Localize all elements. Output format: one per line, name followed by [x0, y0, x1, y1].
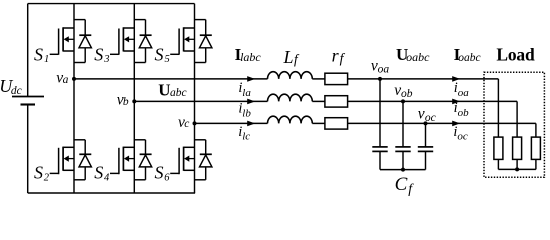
diode D4 antiparallel with S4: [134, 139, 145, 141]
svg-text:oc: oc: [425, 112, 436, 124]
resistor rf phase a: [325, 73, 348, 84]
wire capacitor bottom bus: [380, 169, 426, 171]
svg-text:4: 4: [104, 172, 110, 183]
wire phase a to inductor: [74, 78, 268, 80]
diode D5 antiparallel with S5: [195, 19, 206, 21]
battery Udc positive plate: [12, 96, 44, 98]
svg-text:la: la: [242, 87, 251, 99]
node va junction: [72, 77, 76, 81]
wire left rail lower: [27, 105, 29, 194]
arrow ila: [247, 76, 255, 82]
svg-text:c: c: [184, 118, 189, 130]
wire inductor to resistor a: [312, 78, 325, 80]
svg-text:C: C: [395, 174, 408, 195]
node voa junction: [378, 77, 382, 81]
diode D1 antiparallel with S1: [74, 19, 85, 21]
svg-text:U: U: [158, 81, 170, 100]
node load bus junction: [515, 167, 519, 171]
wire inductor to resistor c: [312, 122, 325, 124]
svg-text:oabc: oabc: [406, 50, 430, 64]
svg-text:lb: lb: [242, 108, 251, 120]
inductor Lf phase a: [268, 72, 313, 79]
svg-text:oc: oc: [457, 130, 468, 142]
svg-text:lc: lc: [242, 130, 250, 142]
svg-text:r: r: [332, 45, 340, 65]
node vob junction: [401, 99, 405, 103]
wire resistor to load c: [348, 122, 536, 124]
svg-text:Load: Load: [496, 45, 535, 65]
wire load bottom bus: [498, 168, 536, 170]
resistor rf phase c: [325, 118, 348, 129]
capacitor Cf phase c: [425, 123, 427, 146]
svg-text:3: 3: [103, 54, 109, 65]
svg-text:6: 6: [164, 172, 170, 183]
svg-text:S: S: [155, 162, 164, 182]
transistor S1: [73, 4, 75, 79]
wire phase b to inductor: [134, 100, 267, 102]
svg-text:dc: dc: [11, 85, 22, 97]
svg-text:b: b: [123, 96, 129, 108]
node voc junction: [424, 121, 428, 125]
load dashed box: [484, 72, 544, 177]
svg-text:oabc: oabc: [458, 52, 480, 64]
arrow ilc: [247, 121, 255, 127]
transistor S5: [194, 4, 196, 124]
svg-text:ob: ob: [401, 88, 413, 100]
wire phase c to inductor: [195, 122, 268, 124]
diode D2 antiparallel with S2: [74, 139, 85, 141]
svg-text:labc: labc: [240, 50, 261, 64]
transistor S2: [73, 79, 75, 193]
diode D3 antiparallel with S3: [134, 19, 145, 21]
inductor Lf phase c: [268, 116, 313, 123]
svg-text:oa: oa: [458, 87, 470, 99]
load resistor phase c: [535, 123, 537, 137]
svg-text:S: S: [94, 162, 103, 182]
wire inductor to resistor b: [312, 100, 325, 102]
svg-text:5: 5: [165, 54, 170, 65]
arrow iob: [452, 99, 460, 105]
node capacitor bus junction: [401, 168, 405, 172]
transistor S6: [194, 123, 196, 193]
svg-text:oa: oa: [378, 64, 390, 76]
arrow ilb: [247, 99, 255, 105]
svg-text:S: S: [34, 162, 43, 182]
transistor S3: [133, 4, 135, 102]
svg-text:S: S: [94, 45, 103, 65]
resistor rf phase b: [325, 96, 348, 107]
svg-text:S: S: [155, 45, 164, 65]
node vb junction: [132, 99, 136, 103]
load resistor phase b: [516, 101, 518, 137]
capacitor Cf phase b: [402, 101, 404, 146]
svg-text:1: 1: [44, 54, 49, 65]
svg-text:ob: ob: [458, 107, 470, 119]
svg-text:L: L: [283, 47, 294, 67]
load resistor phase a: [497, 79, 499, 137]
capacitor Cf phase a: [379, 79, 381, 147]
svg-text:a: a: [63, 74, 69, 86]
transistor S4: [133, 101, 135, 193]
node vc junction: [193, 121, 197, 125]
wire top DC+ rail: [28, 3, 195, 5]
inductor Lf phase b: [268, 94, 313, 101]
diode D6 antiparallel with S6: [195, 139, 206, 141]
arrow ioc: [452, 121, 460, 127]
svg-text:2: 2: [44, 172, 50, 183]
wire resistor to load a: [348, 78, 499, 80]
wire resistor to load b: [348, 100, 517, 102]
svg-text:v: v: [418, 106, 425, 123]
wire left rail upper: [27, 4, 29, 96]
wire bottom DC- rail: [28, 192, 195, 194]
svg-text:S: S: [34, 45, 43, 65]
arrow ioa: [452, 76, 460, 82]
svg-text:abc: abc: [170, 87, 187, 99]
battery Udc negative plate: [21, 103, 36, 105]
